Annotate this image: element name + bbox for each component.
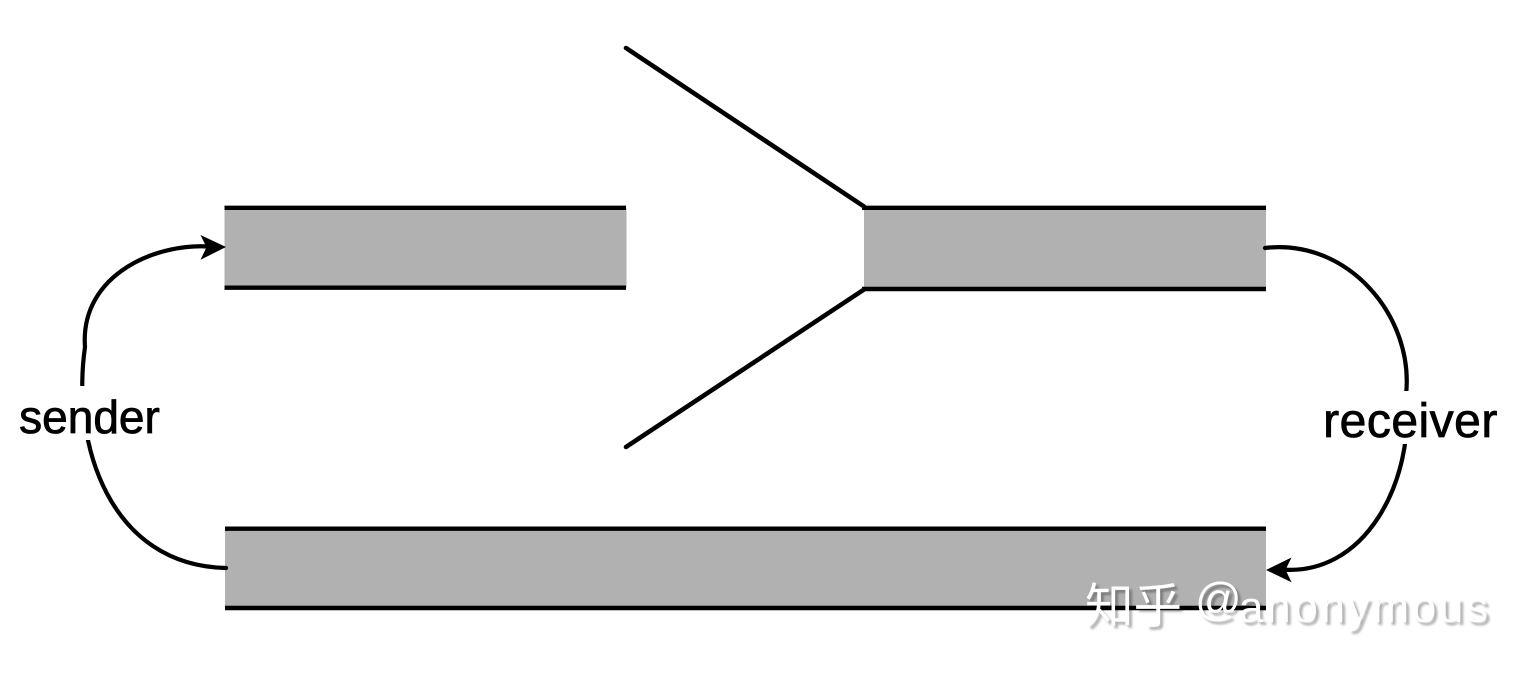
svg-text:receiver: receiver — [1323, 395, 1498, 448]
svg-text:anonymous: anonymous — [1239, 583, 1491, 632]
svg-text:sender: sender — [19, 391, 160, 443]
svg-text:@: @ — [1195, 573, 1242, 625]
